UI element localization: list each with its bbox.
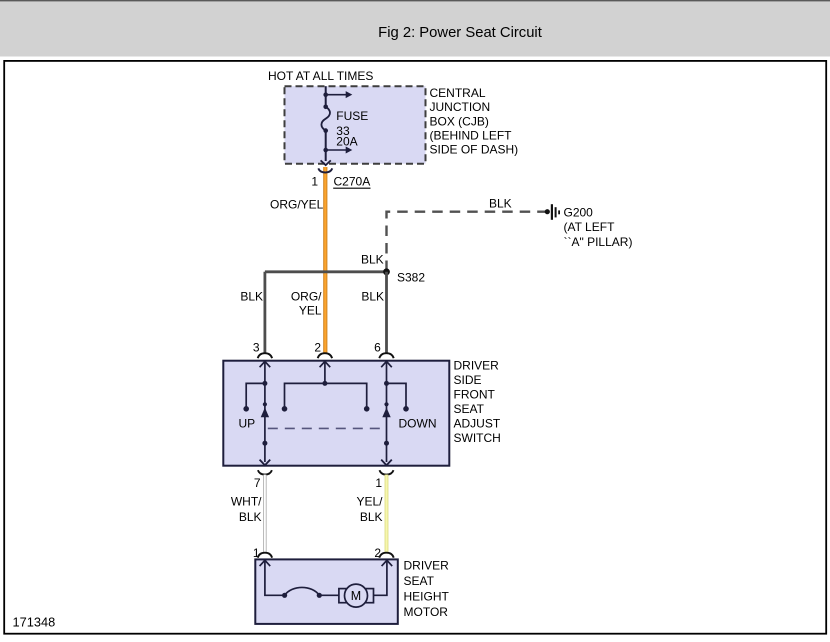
branch arrow (bottom) xyxy=(326,147,353,154)
brush contact dot right xyxy=(317,593,322,598)
svg-text:DRIVER: DRIVER xyxy=(404,559,450,573)
svg-text:20A: 20A xyxy=(336,135,357,149)
connector name C270A xyxy=(333,175,370,189)
wire WHT/BLK xyxy=(263,475,266,552)
connector arc pin 3 xyxy=(258,353,272,358)
CJB label xyxy=(430,86,519,157)
switch label DRIVER SIDE FRONT SEAT ADJUST SWITCH xyxy=(454,359,501,446)
svg-text:171348: 171348 xyxy=(13,615,56,630)
switch wiper pin 3 (UP) xyxy=(260,383,271,465)
svg-text:BLK: BLK xyxy=(361,253,384,267)
svg-text:Fig 2: Power Seat Circuit: Fig 2: Power Seat Circuit xyxy=(378,25,542,41)
svg-text:M: M xyxy=(351,589,361,603)
wire BLK left riser xyxy=(263,272,266,353)
svg-text:BLK: BLK xyxy=(360,510,383,524)
svg-text:SIDE OF DASH): SIDE OF DASH) xyxy=(430,143,519,157)
brush contact dot left xyxy=(282,593,287,598)
svg-text:1: 1 xyxy=(311,175,318,189)
connector arc motor pin 1 xyxy=(258,553,272,558)
svg-text:(BEHIND LEFT: (BEHIND LEFT xyxy=(430,129,513,143)
central junction box CJB (dashed box) xyxy=(285,86,426,164)
driver seat height motor box xyxy=(255,559,397,624)
svg-text:SIDE: SIDE xyxy=(454,373,482,387)
svg-text:FUSE: FUSE xyxy=(336,109,368,123)
wire ORG/YEL vertical xyxy=(323,167,327,353)
svg-text:BLK: BLK xyxy=(489,197,512,211)
svg-text:CENTRAL: CENTRAL xyxy=(430,86,486,100)
header bar xyxy=(0,0,830,57)
splice S382 xyxy=(383,268,390,275)
svg-text:G200: G200 xyxy=(564,206,594,220)
commutator arc xyxy=(285,587,320,595)
svg-text:SEAT: SEAT xyxy=(454,402,485,416)
ground label G200 (AT LEFT ``A" PILLAR) xyxy=(564,206,633,249)
svg-text:ADJUST: ADJUST xyxy=(454,417,501,431)
svg-text:MOTOR: MOTOR xyxy=(404,605,449,619)
motor pin 1 entry arrow and wire xyxy=(260,560,285,595)
switch wiper pin 6 (DOWN) xyxy=(381,383,392,465)
fuse 33 element (squiggle) xyxy=(321,105,330,133)
svg-text:BLK: BLK xyxy=(240,290,263,304)
switch pin 6 entry arrow xyxy=(381,361,392,383)
switch center feed bar (pin 2) xyxy=(282,381,370,412)
svg-text:BOX (CJB): BOX (CJB) xyxy=(430,114,489,128)
connector C270A symbol xyxy=(318,168,332,172)
svg-text:``A" PILLAR): ``A" PILLAR) xyxy=(564,235,633,249)
svg-text:YEL/: YEL/ xyxy=(356,495,383,509)
svg-text:DOWN: DOWN xyxy=(399,417,437,431)
motor M symbol xyxy=(339,584,374,607)
wire label WHT/ BLK xyxy=(231,495,262,524)
wire BLK horizontal to S382 xyxy=(265,270,387,273)
ground G200 symbol xyxy=(545,204,560,220)
motor label DRIVER SEAT HEIGHT MOTOR xyxy=(404,559,450,620)
svg-text:S382: S382 xyxy=(397,270,425,284)
connector arc pin 2 xyxy=(318,353,332,358)
svg-text:(AT LEFT: (AT LEFT xyxy=(564,220,616,234)
branch arrow (top) xyxy=(326,91,353,98)
svg-text:2: 2 xyxy=(314,340,321,354)
fuse label FUSE 33 20A xyxy=(336,109,368,149)
wire to motor xyxy=(319,594,339,596)
junction dot xyxy=(323,92,328,97)
wire label ORG/ YEL (two-line) xyxy=(291,290,322,318)
wire YEL/BLK xyxy=(385,475,389,552)
svg-text:1: 1 xyxy=(253,546,260,560)
connector cup pin 1 xyxy=(380,470,394,474)
connector arc pin 6 xyxy=(379,353,393,358)
svg-text:BLK: BLK xyxy=(361,290,384,304)
motor pin 2 wire and entry arrow xyxy=(374,560,393,595)
svg-text:6: 6 xyxy=(374,340,381,354)
svg-text:UP: UP xyxy=(239,417,256,431)
wire BLK right riser xyxy=(385,272,388,353)
junction dot xyxy=(323,148,328,153)
dashed BLK ground wire xyxy=(387,212,546,271)
svg-text:FRONT: FRONT xyxy=(454,388,496,402)
svg-text:ORG/YEL: ORG/YEL xyxy=(270,197,324,211)
wire label YEL/ BLK xyxy=(356,495,383,524)
switch pin 2 entry arrow xyxy=(320,361,331,383)
bus wire in CJB xyxy=(325,86,327,107)
svg-text:WHT/: WHT/ xyxy=(231,495,262,509)
switch DOWN contact branch (pin 6 side) xyxy=(384,381,409,412)
svg-text:3: 3 xyxy=(253,340,260,354)
svg-text:BLK: BLK xyxy=(239,510,262,524)
svg-text:ORG/: ORG/ xyxy=(291,290,322,304)
svg-text:7: 7 xyxy=(254,476,261,490)
svg-text:SEAT: SEAT xyxy=(404,574,435,588)
svg-text:HOT AT ALL TIMES: HOT AT ALL TIMES xyxy=(268,69,373,83)
connector arc motor pin 2 xyxy=(379,553,393,558)
switch UP contact branch (pin 3 side) xyxy=(243,381,267,412)
svg-text:C270A: C270A xyxy=(334,175,371,189)
svg-text:DRIVER: DRIVER xyxy=(454,359,500,373)
connector cup pin 7 xyxy=(258,470,272,474)
svg-text:1: 1 xyxy=(375,476,382,490)
switch pin 3 entry arrow xyxy=(260,361,271,383)
svg-text:YEL: YEL xyxy=(299,304,322,318)
switch linkage dashed line xyxy=(268,427,387,429)
svg-text:HEIGHT: HEIGHT xyxy=(404,590,450,604)
exit arrow down xyxy=(321,160,331,165)
svg-text:JUNCTION: JUNCTION xyxy=(430,100,491,114)
driver side front seat adjust switch box xyxy=(223,361,449,466)
svg-text:SWITCH: SWITCH xyxy=(454,431,501,445)
